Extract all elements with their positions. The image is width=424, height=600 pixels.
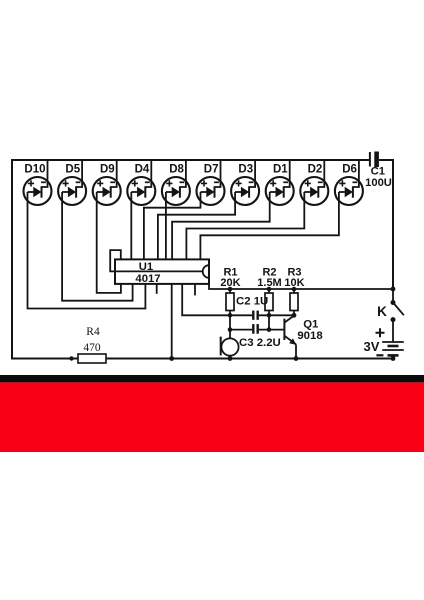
capacitor C2 (252, 311, 259, 320)
wire D6 anode to U1 pin (200, 192, 339, 259)
wire D1 cathode to top rail (284, 160, 290, 187)
resistor R2 labels (257, 266, 281, 289)
label D1 (273, 164, 288, 176)
wire U1 ground pin to bottom rail (171, 284, 173, 359)
junction dot rail-left (69, 356, 73, 360)
switch K (391, 300, 404, 322)
label D6 (342, 164, 357, 176)
wire D10 cathode to top rail (42, 160, 48, 187)
LED D10 (24, 177, 52, 205)
label D5 (65, 164, 80, 176)
label Q1 (303, 319, 319, 331)
wire C3 left lead (230, 329, 252, 331)
svg-text:D5: D5 (65, 164, 80, 176)
wire D4 cathode to top rail (145, 160, 151, 187)
wire D6 cathode to top rail (353, 160, 359, 187)
svg-text:D4: D4 (135, 164, 150, 176)
resistor R4 body (78, 354, 106, 363)
resistor R3 body (290, 287, 298, 311)
wire top supply rail (left of C1) (12, 159, 369, 161)
junction dot mic-rail (228, 356, 233, 361)
svg-text:470: 470 (83, 342, 101, 354)
LED D2 (300, 177, 328, 205)
battery 3V (382, 342, 404, 361)
junction dot C2-R1 (228, 313, 233, 318)
microphone MIC (220, 337, 239, 359)
svg-text:100U: 100U (365, 177, 392, 189)
wire D3 cathode to top rail (249, 160, 255, 187)
LED D1 (266, 177, 294, 205)
wire C2 right lead to collector node (259, 314, 294, 316)
svg-text:D8: D8 (169, 164, 184, 176)
svg-text:D1: D1 (273, 164, 288, 176)
svg-text:D7: D7 (204, 164, 219, 176)
wire D8 cathode to top rail (180, 160, 186, 187)
wire D3 anode to U1 pin (158, 192, 235, 259)
label K (377, 304, 387, 319)
LED D9 (93, 177, 121, 205)
black divider bar (0, 375, 424, 382)
label D2 (308, 164, 323, 176)
LED D3 (231, 177, 259, 205)
svg-text:C2 1U: C2 1U (236, 296, 268, 308)
junction dot rail-right-border (391, 287, 396, 292)
wire R1 bottom lead to microphone (229, 311, 231, 339)
wire C3 right lead to base (259, 329, 284, 331)
wire bottom ground rail (right of R4) (106, 358, 393, 360)
junction dot pin8-rail (169, 356, 174, 361)
junction dot collector node (292, 313, 297, 318)
wire D9 cathode to top rail (111, 160, 117, 187)
wire D1 anode to U1 pin (172, 192, 270, 259)
LED D5 (58, 177, 86, 205)
capacitor C3 (252, 324, 259, 334)
wire D10 anode to U1 pin (28, 192, 146, 309)
label C3 2.2U (239, 337, 281, 349)
wire D5 anode to U1 pin (62, 192, 133, 301)
LED D8 (162, 177, 190, 205)
wire D4 anode to U1 pin (130, 192, 132, 259)
svg-text:D9: D9 (100, 164, 115, 176)
label 9018 (297, 330, 322, 342)
junction dot C3-R1 (228, 327, 233, 332)
svg-text:4017: 4017 (135, 273, 160, 285)
wire R3 bottom lead (293, 311, 295, 316)
svg-text:3V: 3V (364, 339, 380, 354)
wire switch to battery (392, 320, 394, 342)
label 3V (364, 339, 380, 354)
IC U1 4017 body (115, 259, 209, 284)
wire U1 Vdd to supply rail (209, 284, 393, 290)
red banner band (0, 382, 424, 452)
label U1 (139, 261, 153, 273)
label R4 (86, 326, 100, 338)
wire D2 anode to U1 pin (186, 192, 304, 259)
wire right border (switch top) (392, 289, 394, 303)
svg-text:K: K (377, 304, 387, 319)
value 470 (83, 342, 101, 354)
svg-text:9018: 9018 (297, 330, 322, 342)
label C2 1U (236, 296, 268, 308)
label D4 (135, 164, 150, 176)
LED D6 (335, 177, 363, 205)
label D9 (100, 164, 115, 176)
label D3 (238, 164, 253, 176)
svg-text:D10: D10 (24, 164, 45, 176)
wire U1 clock pin to RC node (182, 284, 252, 315)
junction dot emitter-rail (294, 356, 299, 361)
svg-text:R4: R4 (86, 326, 100, 338)
wire D2 cathode to top rail (318, 160, 324, 187)
wire left border (11, 159, 13, 359)
junction dot C2-R2 (267, 313, 272, 318)
label D8 (169, 164, 184, 176)
svg-text:C1: C1 (371, 166, 385, 178)
wire top rail (right of C1) (379, 159, 393, 161)
wire U1 pin stub A (156, 284, 158, 294)
wire bottom ground rail (left of R4) (11, 358, 78, 360)
battery minus sign (376, 354, 383, 356)
svg-text:Q1: Q1 (303, 319, 319, 331)
wire D5 cathode to top rail (76, 160, 82, 187)
svg-text:U1: U1 (139, 261, 153, 273)
battery plus sign (376, 328, 385, 337)
svg-text:D6: D6 (342, 164, 357, 176)
svg-text:D2: D2 (308, 164, 323, 176)
LED D7 (197, 177, 225, 205)
transistor Q1 (283, 316, 296, 359)
svg-text:D3: D3 (238, 164, 253, 176)
label 4017 (135, 273, 160, 285)
capacitor C1 (365, 152, 392, 190)
wire U1 pin stub B (194, 284, 196, 295)
resistor R3 labels (284, 266, 304, 289)
resistor R2 body (265, 287, 273, 311)
label D10 (24, 164, 45, 176)
junction dot C3-R2 (267, 327, 272, 332)
wire D8 anode to U1 pin (165, 192, 167, 259)
wire U1 pin16 hook (110, 250, 121, 271)
resistor R1 labels (220, 266, 240, 289)
wire right border (battery + side) (392, 159, 394, 289)
wire D7 anode to U1 pin (144, 192, 201, 259)
wire R2 bottom lead (268, 311, 270, 330)
svg-text:C3 2.2U: C3 2.2U (239, 337, 281, 349)
wire D7 cathode to top rail (215, 160, 221, 187)
resistor R1 body (226, 287, 234, 311)
label D7 (204, 164, 219, 176)
wire D9 anode to U1 pin (97, 192, 121, 293)
LED D4 (127, 177, 155, 205)
